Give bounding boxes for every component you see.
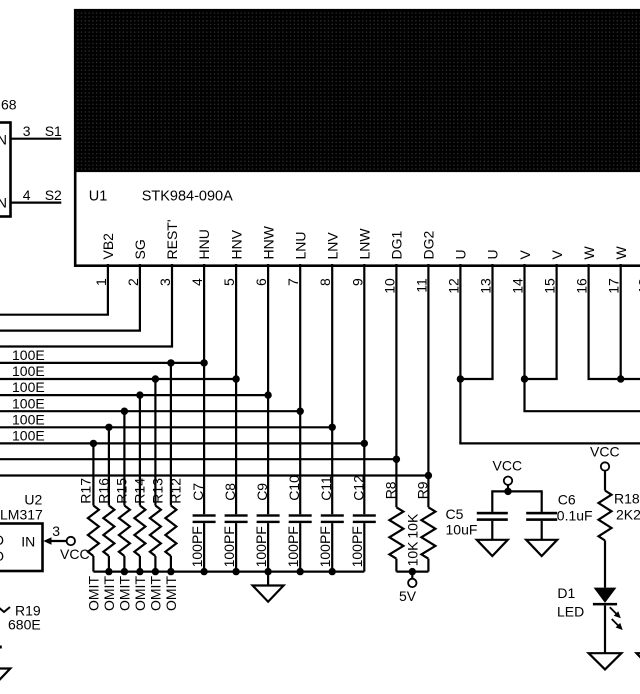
- resistor R12 reference label: [167, 478, 183, 504]
- capacitor C12 reference label: [350, 475, 366, 501]
- svg-text:VCC: VCC: [590, 444, 620, 460]
- resistor value label 100E (row 3): [12, 379, 45, 395]
- ground symbol under C6: [526, 540, 557, 556]
- wire DG2 row (pin 11): [0, 474, 428, 476]
- capacitor C6 value label 0.1uF: [557, 508, 593, 524]
- junction node bus / R13: [152, 568, 159, 575]
- svg-text:R14: R14: [131, 478, 147, 504]
- junction node row 6 to pull-down resistor: [90, 440, 97, 447]
- svg-text:SG: SG: [132, 239, 148, 259]
- node S1 label: [45, 123, 62, 139]
- resistor R18 reference label: [614, 491, 640, 507]
- U1 pin number 1: [93, 278, 109, 286]
- ground symbol at right edge (clipped): [637, 653, 640, 669]
- U1 pin number 13: [478, 278, 494, 294]
- svg-text:D: D: [0, 532, 4, 548]
- wire U1 pin 3 down and left to edge: [0, 264, 173, 347]
- svg-text:C6: C6: [558, 492, 576, 508]
- capacitor C10: [289, 514, 312, 571]
- capacitor C7: [193, 514, 216, 571]
- svg-text:V: V: [517, 250, 533, 260]
- capacitor C8: [225, 514, 248, 571]
- svg-text:R8: R8: [383, 481, 399, 499]
- capacitor C10 value label 100PF: [285, 526, 301, 567]
- wire U1 pin 9 down to capacitor C12: [363, 264, 365, 514]
- wire DG1 row (pin 10): [0, 458, 396, 460]
- svg-text:100PF: 100PF: [253, 526, 269, 567]
- wire U1 pin 17 down, W net out to right: [588, 264, 640, 379]
- resistor R17 OMIT note: [86, 576, 102, 611]
- U2 pin number 3 label: [52, 523, 60, 539]
- wire U1 pin 7 down to capacitor C10: [299, 264, 301, 514]
- 5V net label: [399, 588, 417, 604]
- svg-text:100E: 100E: [12, 411, 45, 427]
- svg-text:W: W: [581, 246, 597, 260]
- ground symbol under D1: [589, 653, 622, 669]
- junction node VCC/C5/C6: [504, 488, 511, 495]
- U2 pin name IN: [21, 533, 35, 549]
- svg-text:U1: U1: [89, 188, 108, 204]
- svg-text:R18: R18: [614, 491, 640, 507]
- svg-text:2: 2: [125, 278, 141, 286]
- svg-text:6: 6: [253, 278, 269, 286]
- wire U1 pin 12 down, U net out to right: [459, 264, 640, 443]
- svg-text:DG2: DG2: [421, 231, 437, 260]
- capacitor C11 value label 100PF: [317, 526, 333, 567]
- resistor R9: [421, 507, 435, 571]
- resistor R9 value label 10K: [405, 513, 421, 539]
- U1 pin number 6: [253, 278, 269, 286]
- junction node row 6 to pin 9: [361, 440, 368, 447]
- ground symbol under C5: [477, 540, 508, 556]
- resistor R17 (OMIT pull-down): [88, 443, 99, 571]
- junction node bus / C8: [232, 568, 239, 575]
- U1 pin number 10: [381, 278, 397, 294]
- svg-text:3: 3: [157, 278, 173, 286]
- svg-text:100E: 100E: [12, 363, 45, 379]
- svg-text:OMIT: OMIT: [117, 576, 133, 611]
- svg-text:0.1uF: 0.1uF: [557, 508, 593, 524]
- capacitor C11: [321, 514, 344, 571]
- svg-text:8: 8: [317, 278, 333, 286]
- svg-text:C8: C8: [222, 483, 238, 501]
- svg-text:HNV: HNV: [228, 229, 244, 259]
- capacitor C5: [477, 512, 508, 540]
- junction node U pair (pin 12): [457, 375, 464, 382]
- U1 pin name V (pin 15): [549, 250, 565, 260]
- wire D1 to ground: [604, 605, 606, 653]
- svg-text:OMIT: OMIT: [132, 576, 148, 611]
- svg-text:10K: 10K: [405, 513, 421, 539]
- svg-text:100PF: 100PF: [317, 526, 333, 567]
- wire pin 4 to net S2: [11, 202, 61, 204]
- junction node W pair (pin 17): [617, 375, 624, 382]
- wire 100E row for U1 pin 7: [0, 410, 300, 412]
- svg-text:U: U: [485, 249, 501, 259]
- capacitor C7 reference label: [190, 483, 206, 501]
- svg-text:VCC: VCC: [60, 546, 90, 562]
- resistor R16 reference label: [95, 478, 111, 504]
- U1 pin number 2: [125, 278, 141, 286]
- svg-text:DG1: DG1: [389, 231, 405, 260]
- svg-text:HNW: HNW: [260, 225, 276, 259]
- resistor value label 100E (row 4): [12, 395, 45, 411]
- resistor R16 (OMIT pull-down): [103, 427, 114, 571]
- capacitor C6 reference label: [558, 492, 576, 508]
- svg-text:OMIT: OMIT: [86, 576, 102, 611]
- svg-text:68: 68: [1, 97, 17, 113]
- capacitor C5 value label 10uF: [446, 521, 478, 537]
- svg-text:REST': REST': [164, 219, 180, 259]
- resistor R9 reference label: [415, 481, 431, 499]
- wire U1 pin 2 down and left to edge: [0, 264, 141, 331]
- svg-text:1: 1: [93, 278, 109, 286]
- junction node row 3 to pin 6: [264, 391, 271, 398]
- svg-text:C12: C12: [350, 475, 366, 501]
- resistor R15 reference label: [113, 478, 129, 504]
- svg-text:R17: R17: [77, 478, 93, 504]
- svg-text:C7: C7: [190, 483, 206, 501]
- svg-text:100E: 100E: [12, 347, 45, 363]
- junction node row 2 to pin 5: [232, 375, 239, 382]
- U1 pin name LNU (pin 7): [292, 231, 308, 259]
- svg-text:OMIT: OMIT: [101, 576, 117, 611]
- U1 reference designator label: [89, 188, 108, 204]
- resistor R8: [389, 507, 403, 571]
- U1 pin number 15: [542, 278, 558, 294]
- capacitor C8 reference label: [222, 483, 238, 501]
- svg-text:9: 9: [349, 278, 365, 286]
- junction node bus / C7: [200, 568, 207, 575]
- pin label IN (clipped, lower): [0, 195, 7, 211]
- wire 100E row for U1 pin 9: [0, 442, 364, 444]
- capacitor C11 reference label: [318, 476, 334, 501]
- wire U1 pin 14 down, V net out to right: [523, 264, 640, 411]
- wire U1 pin down to resistor R9: [427, 264, 429, 507]
- resistor R8 reference label: [383, 481, 399, 499]
- svg-text:7: 7: [285, 278, 301, 286]
- junction node V pair (pin 14): [521, 375, 528, 382]
- svg-text:12: 12: [445, 278, 461, 294]
- svg-text:680E: 680E: [8, 617, 41, 633]
- wire R18 to D1: [604, 541, 606, 588]
- svg-text:W: W: [613, 246, 629, 260]
- resistor value label 100E (row 6): [12, 428, 45, 444]
- svg-text:100PF: 100PF: [221, 526, 237, 567]
- svg-text:11: 11: [413, 278, 429, 293]
- U1 pin number 16: [574, 278, 590, 294]
- resistor value label 100E (row 5): [12, 411, 45, 427]
- svg-text:3: 3: [23, 123, 31, 139]
- svg-text:IN: IN: [0, 195, 7, 211]
- resistor value label 100E (row 1): [12, 347, 45, 363]
- svg-text:2K2: 2K2: [616, 507, 640, 523]
- svg-text:C10: C10: [286, 475, 302, 501]
- wire 100E row for U1 pin 6: [0, 394, 268, 396]
- capacitor C10 reference label: [286, 475, 302, 501]
- junction node DG1 row to pin 10: [393, 456, 400, 463]
- resistor R18 value label 2K2: [616, 507, 640, 523]
- VCC terminal at U2 pin 3: [67, 537, 75, 545]
- junction node row 2 to pull-down resistor: [152, 375, 159, 382]
- connector/part box at left edge (clipped): [0, 123, 11, 217]
- svg-text:10uF: 10uF: [446, 521, 478, 537]
- U1 pin name U (pin 13): [485, 249, 501, 259]
- svg-text:LNV: LNV: [324, 232, 340, 260]
- U2 pin name fragment (clipped): [0, 532, 4, 564]
- value label 68 (clipped part number): [1, 97, 17, 113]
- svg-text:R13: R13: [149, 478, 165, 504]
- U1 pin name HNV (pin 5): [228, 229, 244, 259]
- junction node bus / C11: [329, 568, 336, 575]
- wire U1 pin 1 down and left to edge: [0, 264, 109, 315]
- resistor R19 reference label: [15, 603, 41, 619]
- wire 100E row for U1 pin 5: [0, 378, 236, 380]
- svg-text:V: V: [549, 250, 565, 260]
- resistor R14 reference label: [131, 478, 147, 504]
- resistor value label 100E (row 2): [12, 363, 45, 379]
- wire U1 pin 15 down to V pair join: [525, 264, 558, 379]
- wire U1 pin 8 down to capacitor C11: [331, 264, 333, 514]
- resistor R15 (OMIT pull-down): [119, 411, 130, 571]
- wire fragment at left edge: [0, 646, 2, 649]
- svg-text:4: 4: [189, 278, 205, 286]
- svg-text:VB2: VB2: [100, 233, 116, 260]
- U1 pin number 9: [349, 278, 365, 286]
- U1 pin number 17: [606, 278, 622, 294]
- U1 pin name REST-prime (pin 3): [164, 219, 180, 259]
- U1 pin number 18 (clipped at right edge): [636, 278, 640, 294]
- U1 pin name VB2 (pin 1): [100, 233, 116, 260]
- svg-text:O: O: [0, 548, 4, 564]
- svg-text:IN: IN: [21, 533, 35, 549]
- op-amp U1 STK984-090A hybrid IC body: [75, 10, 640, 266]
- ground symbol under bus at C9: [253, 572, 284, 602]
- U1 pin name U (pin 12): [453, 249, 469, 259]
- resistor R17 reference label: [77, 478, 93, 504]
- diode D1 reference label: [557, 585, 575, 601]
- VCC net label at U2: [60, 546, 90, 562]
- U1 pin name HNW (pin 6): [260, 225, 276, 259]
- U1 pin name HNU (pin 4): [196, 229, 212, 259]
- svg-text:100PF: 100PF: [349, 526, 365, 567]
- LED D1 emission arrows: [610, 607, 623, 630]
- capacitor C9 value label 100PF: [253, 526, 269, 567]
- svg-text:4: 4: [23, 187, 31, 203]
- svg-text:D1: D1: [557, 585, 575, 601]
- resistor R19 zigzag fragment at left edge: [0, 606, 10, 612]
- U1 pin number 8: [317, 278, 333, 286]
- wire U1 pin 6 down to capacitor C9: [267, 264, 269, 514]
- capacitor C7 value label 100PF: [189, 526, 205, 567]
- svg-text:5: 5: [221, 278, 237, 286]
- resistor R12 OMIT note: [163, 576, 179, 611]
- svg-text:16: 16: [574, 278, 590, 294]
- wire U1 pin 4 down to capacitor C7: [203, 264, 205, 514]
- U1 pin number 14: [510, 278, 526, 294]
- wire U1 pin down to resistor R8: [395, 264, 397, 507]
- svg-text:15: 15: [542, 278, 558, 294]
- resistor R19 value label 680E: [8, 617, 41, 633]
- capacitor C9 reference label: [254, 483, 270, 501]
- junction node bus / R15: [121, 568, 128, 575]
- svg-text:U: U: [453, 249, 469, 259]
- wire pin 3 to net S1: [11, 138, 61, 140]
- U1 pin number 5: [221, 278, 237, 286]
- VCC net label above R18: [590, 444, 620, 460]
- svg-text:3: 3: [52, 523, 60, 539]
- U1 pin name LNV (pin 8): [324, 232, 340, 260]
- junction node bus / R16: [105, 568, 112, 575]
- svg-text:100PF: 100PF: [189, 526, 205, 567]
- capacitor C12 value label 100PF: [349, 526, 365, 567]
- svg-text:HNU: HNU: [196, 229, 212, 259]
- wire ground bus under R17-R12 and C7-C12: [93, 570, 364, 572]
- junction node bus / R12: [167, 568, 174, 575]
- U1 pin name DG2 (pin 11): [421, 231, 437, 260]
- resistor R14 OMIT note: [132, 576, 148, 611]
- U1 value label STK984-090A: [142, 188, 233, 204]
- wire U1 pin 16 down to W pair join: [587, 264, 589, 379]
- junction node row 5 to pin 8: [329, 424, 336, 431]
- resistor R14 (OMIT pull-down): [134, 395, 145, 571]
- resistor R15 OMIT note: [117, 576, 133, 611]
- wire VCC rail to C5 and C6: [492, 490, 541, 512]
- svg-text:LNU: LNU: [292, 231, 308, 259]
- junction node row 4 to pin 7: [297, 408, 304, 415]
- LED D1: [593, 588, 617, 606]
- regulator U2 LM317 body (clipped at left): [0, 524, 43, 572]
- svg-text:14: 14: [510, 278, 526, 294]
- resistor R18: [599, 471, 612, 541]
- svg-text:C5: C5: [446, 506, 464, 522]
- svg-text:R16: R16: [95, 478, 111, 504]
- svg-text:R15: R15: [113, 478, 129, 504]
- wire U1 pin 13 down to U pair join: [460, 264, 493, 379]
- svg-text:STK984-090A: STK984-090A: [142, 188, 233, 204]
- resistor R8 value label 10K: [405, 541, 421, 567]
- U1 pin name LNW (pin 9): [357, 228, 373, 260]
- capacitor C8 value label 100PF: [221, 526, 237, 567]
- U1 pin number 3: [157, 278, 173, 286]
- svg-text:OMIT: OMIT: [148, 576, 164, 611]
- U1 pin name W (pin 17): [613, 246, 629, 260]
- resistor R13 OMIT note: [148, 576, 164, 611]
- 5V terminal: [408, 572, 416, 588]
- svg-text:100E: 100E: [12, 379, 45, 395]
- wire 100E row for U1 pin 4: [0, 362, 204, 364]
- svg-text:LNW: LNW: [357, 228, 373, 260]
- junction node row 4 to pull-down resistor: [121, 408, 128, 415]
- junction node bus / C10: [297, 568, 304, 575]
- U1 pin name DG1 (pin 10): [389, 231, 405, 260]
- junction node DG2 row to pin 11: [425, 472, 432, 479]
- U1 pin name SG (pin 2): [132, 239, 148, 259]
- svg-text:R9: R9: [415, 481, 431, 499]
- junction node row 5 to pull-down resistor: [105, 424, 112, 431]
- VCC terminal above R18: [601, 462, 609, 470]
- U2 pin 3 input arrow and wire: [43, 537, 66, 545]
- svg-text:OMIT: OMIT: [163, 576, 179, 611]
- capacitor C12: [353, 514, 376, 571]
- junction node bus / R14: [136, 568, 143, 575]
- svg-text:17: 17: [606, 278, 622, 294]
- junction node bus / C9: [264, 568, 271, 575]
- VCC net label above C5/C6: [493, 457, 523, 473]
- svg-text:5V: 5V: [399, 588, 417, 604]
- U1 pin number 12: [445, 278, 461, 294]
- capacitor C6: [526, 512, 557, 540]
- svg-text:S2: S2: [45, 187, 62, 203]
- svg-text:LM317: LM317: [0, 507, 43, 523]
- U1 pin name W (pin 16): [581, 246, 597, 260]
- U1 pin number 7: [285, 278, 301, 286]
- capacitor C5 reference label: [446, 506, 464, 522]
- svg-text:C11: C11: [318, 476, 334, 501]
- svg-text:100PF: 100PF: [285, 526, 301, 567]
- svg-text:IN: IN: [0, 132, 7, 148]
- svg-text:S1: S1: [45, 123, 62, 139]
- junction node row 1 to pull-down resistor: [167, 359, 174, 366]
- svg-text:100E: 100E: [12, 428, 45, 444]
- U2 value label LM317: [0, 507, 43, 523]
- wire 100E row for U1 pin 8: [0, 426, 332, 428]
- svg-text:10K: 10K: [405, 541, 421, 567]
- U1 pin number 4: [189, 278, 205, 286]
- wire joining R8 and R9 bottoms: [396, 570, 428, 572]
- svg-text:100E: 100E: [12, 395, 45, 411]
- svg-text:U2: U2: [24, 492, 42, 508]
- resistor R16 OMIT note: [101, 576, 117, 611]
- capacitor C9: [257, 514, 280, 571]
- resistor R13 reference label: [149, 478, 165, 504]
- resistor R13 (OMIT pull-down): [150, 379, 161, 572]
- svg-text:13: 13: [478, 278, 494, 294]
- svg-text:R12: R12: [167, 478, 183, 504]
- wire U1 pin 5 down to capacitor C8: [235, 264, 237, 514]
- junction node row 3 to pull-down resistor: [136, 391, 143, 398]
- VCC terminal above C5/C6: [504, 477, 512, 492]
- junction node R8/R9/5V: [409, 568, 416, 575]
- pin number 4 label: [23, 187, 31, 203]
- pin label IN (clipped, upper): [0, 132, 7, 148]
- svg-text:10: 10: [381, 278, 397, 294]
- svg-text:LED: LED: [557, 604, 584, 620]
- junction node row 1 to pin 4: [200, 359, 207, 366]
- U1 pin name V (pin 14): [517, 250, 533, 260]
- svg-text:C9: C9: [254, 483, 270, 501]
- svg-text:18: 18: [636, 278, 640, 294]
- pin number 3 label: [23, 123, 31, 139]
- ground symbol at bottom left (clipped): [0, 669, 10, 685]
- resistor R12 (OMIT pull-down): [165, 363, 176, 572]
- svg-text:VCC: VCC: [493, 457, 523, 473]
- U1 pin number 11: [413, 278, 429, 293]
- U2 reference label: [24, 492, 42, 508]
- node S2 label: [45, 187, 62, 203]
- diode D1 value label LED: [557, 604, 584, 620]
